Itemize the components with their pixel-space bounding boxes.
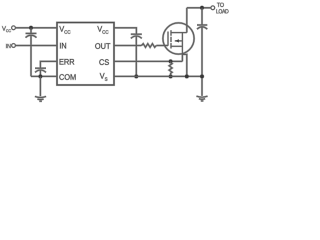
wire C1 top stub bbox=[30, 28, 32, 34]
wire ground stem left bbox=[39, 76, 41, 96]
node junction VCC / C1 bbox=[29, 26, 33, 30]
wire drain rail to load bbox=[187, 7, 211, 9]
wire ERR pin to C4 bbox=[40, 61, 57, 67]
MOSFET Q1 case circle bbox=[163, 23, 194, 54]
capacitor C2 VCC bypass right bbox=[131, 33, 142, 35]
node junction R2 / VS bus bbox=[169, 75, 173, 79]
wire VS bus bbox=[114, 75, 202, 77]
pin label IN bbox=[60, 43, 66, 49]
wire R1 to MOSFET gate bbox=[156, 45, 168, 47]
Q1 source stub bbox=[171, 45, 182, 47]
label IN terminal bbox=[6, 44, 10, 48]
Q1 channel bar dashed bbox=[170, 30, 172, 48]
pin label VCC left bbox=[59, 26, 70, 34]
wire C3 top stub bbox=[201, 8, 203, 25]
scan halo underlay bbox=[2, 3, 228, 101]
Q1 body stub with arrow bbox=[175, 40, 183, 42]
node junction C2 / VS bus bbox=[134, 75, 138, 79]
pin label CS bbox=[99, 59, 109, 65]
wire CS pin to sense node bbox=[114, 60, 182, 62]
node junction CS / R2 bbox=[169, 60, 173, 64]
label VCC terminal bbox=[2, 26, 11, 32]
pin label VS bbox=[100, 73, 108, 81]
wire OUT pin to gate resistor bbox=[114, 45, 142, 47]
wire Q1 drain up to rail bbox=[186, 8, 188, 33]
wire IN to IC bbox=[15, 45, 57, 47]
pin label ERR bbox=[60, 59, 75, 65]
wire VCC right pin to C2 bbox=[114, 28, 136, 34]
terminal TO LOAD bbox=[211, 6, 215, 10]
resistor R1 gate bbox=[142, 44, 157, 48]
terminal VCC input bbox=[12, 26, 16, 30]
Q1 gate bar bbox=[167, 32, 169, 46]
ground GND2 bbox=[196, 96, 207, 97]
capacitor C4 ERR timing bbox=[35, 67, 46, 69]
capacitor C1 VCC bypass bbox=[26, 32, 37, 34]
wire Q1 source to bus bbox=[182, 54, 186, 76]
pin label VCC right bbox=[97, 26, 108, 34]
IC U1 box bbox=[57, 23, 114, 86]
wire C3 bottom down to ground bbox=[201, 27, 203, 96]
resistor R2 current sense bbox=[169, 61, 172, 74]
wire Q1 kelvin source to CS bbox=[181, 54, 183, 61]
label TO LOAD bbox=[217, 3, 224, 7]
wire COM bus left bbox=[31, 75, 57, 77]
node junction C3 wire / VS bus bbox=[200, 75, 204, 79]
Q1 drain stub bbox=[171, 32, 187, 34]
node junction C4 / ground bbox=[39, 75, 43, 79]
node junction rail / C3 bbox=[200, 6, 204, 10]
wire C1 bottom down to COM bus bbox=[30, 35, 32, 76]
Q1 right bar bbox=[181, 33, 183, 55]
wire C4 bottom to COM bus bbox=[39, 70, 41, 76]
terminal IN input bbox=[12, 44, 16, 48]
wire VCC input to IC bbox=[15, 27, 57, 29]
node junction source / VS bus bbox=[185, 75, 189, 79]
capacitor C3 output bbox=[197, 24, 207, 26]
pin label COM bbox=[59, 74, 75, 80]
wire C2 bottom to VS bus bbox=[135, 36, 137, 76]
pin label OUT bbox=[95, 43, 110, 49]
ground GND1 bbox=[35, 96, 46, 97]
